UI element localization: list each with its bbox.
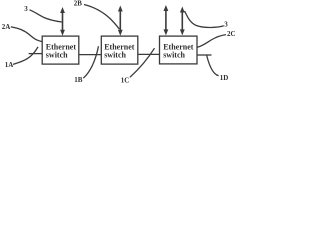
- svg-text:switch: switch: [163, 50, 185, 59]
- wire: link between box 2 and box 3: [138, 53, 160, 55]
- wire: left stub link 1A: [29, 53, 43, 55]
- svg-text:3: 3: [24, 5, 28, 13]
- double arrow above box 2: [118, 6, 123, 36]
- wire: link between box 1 and box 2: [79, 54, 102, 56]
- svg-text:2B: 2B: [74, 0, 83, 8]
- leader from arrow 4 to right label 3: [185, 11, 224, 27]
- leader from label 1B across wire between box 1 and 2: [83, 46, 98, 78]
- double arrow above box 3 (right): [180, 7, 185, 36]
- leader from label 2B to arrow 2: [84, 5, 119, 30]
- svg-text:1C: 1C: [121, 77, 130, 85]
- svg-text:3: 3: [224, 21, 228, 29]
- wire: right stub link 1D: [197, 54, 212, 56]
- svg-text:switch: switch: [46, 50, 68, 59]
- double arrow above box 1: [60, 7, 65, 36]
- ethernet switch box 2: [101, 36, 138, 64]
- leader from label 1A across left stub wire: [13, 47, 38, 65]
- svg-text:1A: 1A: [5, 61, 14, 69]
- svg-text:1D: 1D: [220, 74, 229, 82]
- svg-text:1B: 1B: [74, 76, 83, 84]
- ethernet switch box 3: [160, 36, 198, 64]
- ethernet switch box 1: [42, 36, 79, 64]
- leader from box 3 right edge to label 2C: [197, 35, 226, 48]
- svg-text:2C: 2C: [227, 30, 236, 38]
- leader from right stub wire to label 1D: [207, 55, 219, 75]
- leader from label 3 to arrow 1: [30, 10, 62, 22]
- svg-text:2A: 2A: [2, 23, 11, 31]
- svg-text:switch: switch: [104, 50, 126, 59]
- leader from label 1C across wire between box 2 and 3: [130, 48, 155, 77]
- leader from label 2A to box 1 left edge: [11, 27, 42, 42]
- double arrow above box 3 (left): [164, 5, 169, 35]
